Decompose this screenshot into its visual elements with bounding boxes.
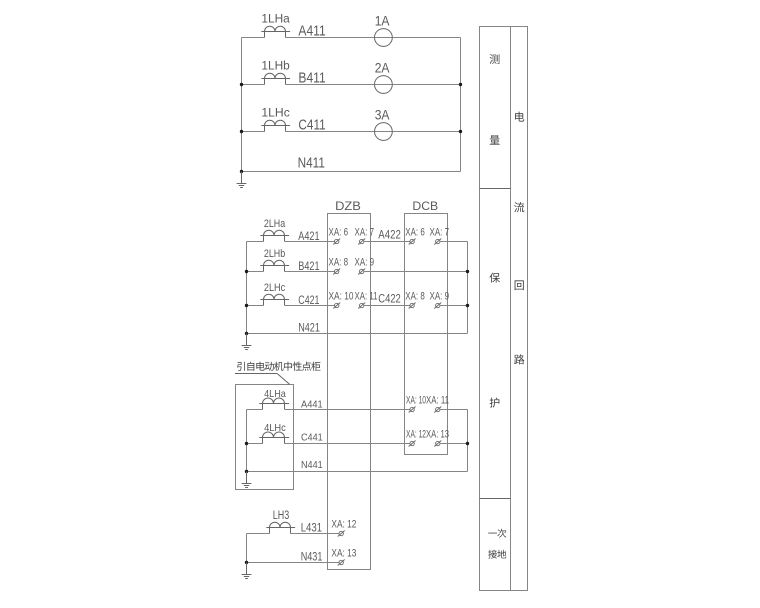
note leader diagonal xyxy=(277,374,290,385)
svg-text:XA: 10: XA: 10 xyxy=(329,290,354,302)
wire C422 between DZB and DCB xyxy=(364,305,410,307)
wire A421 DCB to right bus xyxy=(440,241,468,243)
svg-text:C422: C422 xyxy=(378,293,401,306)
svg-text:XA: 6: XA: 6 xyxy=(405,226,425,238)
svg-text:L431: L431 xyxy=(301,521,322,534)
junction right bus C421 xyxy=(466,304,469,307)
terminal DCB XA:13 xyxy=(434,441,441,447)
ground protection loop xyxy=(242,334,252,350)
note underline leader xyxy=(235,373,277,375)
svg-text:1LHa: 1LHa xyxy=(261,14,290,26)
svg-text:1LHb: 1LHb xyxy=(261,61,289,73)
wire C411 to right bus xyxy=(286,131,461,133)
svg-text:XA: 8: XA: 8 xyxy=(329,256,349,268)
wire B421 to DZB terminal xyxy=(285,271,335,273)
svg-text:XA: 13: XA: 13 xyxy=(426,428,449,440)
svg-text:XA: 12: XA: 12 xyxy=(406,428,426,440)
terminal DCB XA:8 xyxy=(409,303,416,309)
svg-text:C441: C441 xyxy=(301,433,323,444)
svg-text:XA: 6: XA: 6 xyxy=(329,226,349,238)
wire right bus (neutral CT) xyxy=(467,410,469,472)
svg-text:A411: A411 xyxy=(298,23,325,40)
current transformer 2LHc xyxy=(260,294,289,305)
terminal DCB XA:9 xyxy=(434,303,441,309)
svg-text:C421: C421 xyxy=(298,294,319,307)
svg-text:1A: 1A xyxy=(375,14,390,29)
junction left bus N421 xyxy=(245,332,248,335)
junction left bus C421 xyxy=(245,304,248,307)
ammeter 1A xyxy=(375,29,393,47)
wire A421 left segment xyxy=(247,241,264,243)
legend cell 测量 xyxy=(490,54,500,145)
ground LH3 xyxy=(242,563,252,579)
svg-text:N411: N411 xyxy=(298,154,325,171)
svg-text:DZB: DZB xyxy=(335,201,361,213)
svg-text:XA: 10: XA: 10 xyxy=(406,394,426,406)
svg-text:4LHa: 4LHa xyxy=(264,389,286,400)
wire B411 left segment xyxy=(242,84,265,86)
junction left bus N411 xyxy=(240,170,243,173)
test block DZB xyxy=(328,214,371,570)
wire B411 to right bus xyxy=(286,84,461,86)
svg-text:DCB: DCB xyxy=(412,201,438,213)
svg-text:B411: B411 xyxy=(298,70,325,87)
wire B421 left segment xyxy=(247,271,264,273)
legend column frame xyxy=(480,27,528,591)
junction left bus C411 xyxy=(240,130,243,133)
terminal DCB XA:12 xyxy=(409,441,416,447)
wire C411 left segment xyxy=(242,131,265,133)
wire A441 left segment xyxy=(247,409,263,411)
legend column divider xyxy=(510,27,512,591)
svg-text:N431: N431 xyxy=(301,550,323,563)
current transformer 1LHb xyxy=(261,73,290,84)
svg-text:XA: 8: XA: 8 xyxy=(405,290,425,302)
wire left bus (measurement) xyxy=(241,38,243,172)
svg-text:XA: 13: XA: 13 xyxy=(331,547,356,559)
wire N411 xyxy=(242,171,461,173)
terminal DZB XA:11 xyxy=(358,303,365,309)
ground measurement loop xyxy=(237,172,247,188)
svg-text:XA: 7: XA: 7 xyxy=(430,226,450,238)
svg-text:2LHc: 2LHc xyxy=(264,282,286,294)
junction right bus C411 xyxy=(459,130,462,133)
ammeter 3A xyxy=(375,123,393,141)
wire L431 left segment xyxy=(247,533,270,535)
svg-text:XA: 9: XA: 9 xyxy=(430,290,450,302)
ground neutral CT xyxy=(242,472,252,488)
wire C421 left segment xyxy=(247,305,264,307)
terminal DCB XA:7 xyxy=(434,239,441,245)
terminal DCB XA:6 xyxy=(409,239,416,245)
svg-text:XA: 7: XA: 7 xyxy=(355,226,375,238)
svg-text:XA: 11: XA: 11 xyxy=(426,394,449,406)
wire N421 xyxy=(247,333,468,335)
svg-text:A421: A421 xyxy=(298,230,319,243)
svg-text:N421: N421 xyxy=(298,322,320,335)
wire C441 left segment xyxy=(247,443,263,445)
wire right bus (protection) xyxy=(467,242,469,334)
svg-text:N441: N441 xyxy=(301,460,323,471)
terminal DZB XA:12 xyxy=(338,531,345,537)
wire A441 to DCB terminal xyxy=(285,409,410,411)
wire C441 DCB to right bus xyxy=(440,443,468,445)
wire A441 DCB to right bus xyxy=(440,409,468,411)
terminal DZB XA:8 xyxy=(333,269,340,275)
wire left bus (protection) xyxy=(246,242,248,334)
svg-text:1LHc: 1LHc xyxy=(261,108,290,120)
svg-text:3A: 3A xyxy=(375,108,390,123)
svg-text:2LHa: 2LHa xyxy=(264,218,286,230)
wire A411 to right bus xyxy=(286,37,461,39)
svg-text:A441: A441 xyxy=(301,399,323,410)
junction left bus C441 xyxy=(245,442,248,445)
wire right bus (measurement) xyxy=(460,38,462,172)
junction left bus N441 xyxy=(245,470,248,473)
current transformer 1LHc xyxy=(261,120,290,131)
terminal DCB XA:10 xyxy=(409,407,416,413)
junction right bus B411 xyxy=(459,83,462,86)
terminal DZB XA:10 xyxy=(333,303,340,309)
wire left bus (LH3) xyxy=(246,534,248,563)
ammeter 2A xyxy=(375,76,393,94)
terminal DZB XA:7 xyxy=(358,239,365,245)
wire L431 to terminal XA:12 xyxy=(291,533,340,535)
svg-text:2LHb: 2LHb xyxy=(264,248,285,260)
svg-text:B421: B421 xyxy=(298,260,319,273)
svg-text:4LHc: 4LHc xyxy=(264,423,286,434)
wire C421 to DZB terminal xyxy=(285,305,335,307)
wire A421 to DZB terminal xyxy=(285,241,335,243)
terminal DZB XA:6 xyxy=(333,239,340,245)
wire B421 through DCB to right bus xyxy=(364,271,468,273)
wire C421 DCB to right bus xyxy=(440,305,468,307)
wire N441 xyxy=(247,471,468,473)
current transformer 2LHb xyxy=(260,260,289,271)
wire A422 between DZB and DCB xyxy=(364,241,410,243)
wire left bus (neutral CT) xyxy=(246,410,248,472)
terminal DZB XA:13 xyxy=(338,560,345,566)
svg-text:A422: A422 xyxy=(378,229,401,242)
current transformer LH3 xyxy=(266,522,295,533)
note text 引自电动机中性点柜 xyxy=(237,362,320,371)
motor neutral cabinet box xyxy=(236,385,294,490)
svg-text:LH3: LH3 xyxy=(273,508,290,522)
svg-text:XA: 9: XA: 9 xyxy=(355,256,375,268)
current transformer 2LHa xyxy=(260,230,289,241)
junction right bus B421 xyxy=(466,270,469,273)
junction left bus B411 xyxy=(240,83,243,86)
legend cell 保护 xyxy=(489,273,500,408)
svg-text:2A: 2A xyxy=(375,61,390,76)
svg-text:XA: 11: XA: 11 xyxy=(355,290,378,302)
svg-text:XA: 12: XA: 12 xyxy=(331,518,356,530)
legend row divider 1 xyxy=(480,188,511,190)
legend column 电流回路 xyxy=(514,112,524,365)
wire N431 to terminal XA:13 xyxy=(247,562,340,564)
terminal DCB XA:11 xyxy=(434,407,441,413)
test block DCB xyxy=(405,214,448,455)
current transformer 1LHa xyxy=(261,26,290,37)
legend cell 一次接地 xyxy=(488,529,506,559)
svg-text:C411: C411 xyxy=(298,117,325,134)
current transformer 4LHa xyxy=(259,398,289,409)
wire A411 left segment xyxy=(242,37,265,39)
terminal DZB XA:9 xyxy=(358,269,365,275)
current transformer 4LHc xyxy=(259,432,289,444)
junction right bus C441 xyxy=(466,442,469,445)
legend row divider 2 xyxy=(480,498,511,500)
junction left bus B421 xyxy=(245,270,248,273)
wire C441 to DCB terminal xyxy=(285,443,410,445)
junction left bus N431 xyxy=(245,561,248,564)
